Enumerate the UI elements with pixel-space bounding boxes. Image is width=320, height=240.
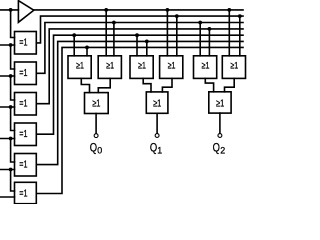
svg-text:≥1: ≥1 [153, 98, 161, 109]
svg-text:Q: Q [90, 142, 97, 155]
svg-text:Q: Q [213, 142, 220, 155]
svg-text:≥1: ≥1 [76, 61, 84, 72]
svg-text:=1: =1 [19, 160, 27, 171]
svg-text:≥1: ≥1 [92, 99, 100, 110]
svg-text:=1: =1 [19, 99, 27, 110]
svg-text:≥1: ≥1 [230, 61, 238, 72]
svg-text:=1: =1 [19, 38, 27, 49]
svg-text:0: 0 [97, 145, 102, 155]
svg-text:Q: Q [150, 142, 157, 155]
svg-text:2: 2 [220, 145, 225, 155]
svg-text:≥1: ≥1 [216, 98, 224, 109]
svg-text:≥1: ≥1 [202, 61, 210, 72]
svg-text:≥1: ≥1 [138, 61, 146, 72]
svg-text:≥1: ≥1 [106, 61, 114, 72]
svg-text:1: 1 [157, 145, 162, 155]
svg-text:=1: =1 [19, 68, 27, 79]
svg-text:=1: =1 [19, 129, 27, 140]
svg-text:=1: =1 [19, 189, 27, 200]
svg-text:≥1: ≥1 [168, 61, 176, 72]
